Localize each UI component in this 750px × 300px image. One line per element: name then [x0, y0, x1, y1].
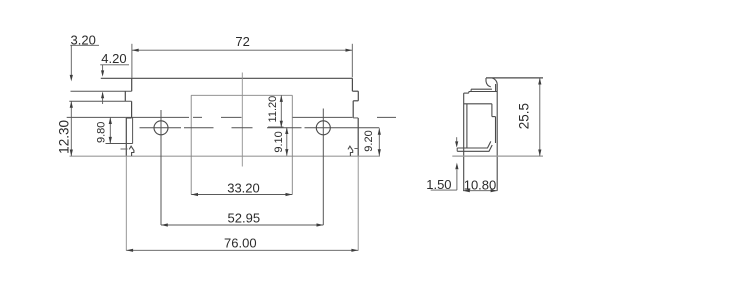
arrowheads front — [70, 49, 381, 252]
inner horizontal edge line y=117.35 segment A (with 9.80 extension) — [67, 116, 189, 118]
left shelf line (9.80 bottom extension) — [106, 143, 133, 145]
dim 3.20 leader — [70, 45, 72, 76]
side lip bottom — [469, 91, 497, 93]
dim 4.20 lower leader — [102, 93, 104, 105]
dim 1.50 underline — [431, 189, 457, 191]
rail left edge — [131, 78, 133, 91]
svg-text:3.20: 3.20 — [71, 32, 96, 47]
hole centerline horizontal middle — [232, 127, 253, 129]
right clip tick — [354, 148, 358, 150]
arrow 52.95 right — [317, 223, 324, 226]
arrow 12.30 up — [70, 101, 73, 108]
right hole vertical centerline (extends to 52.95 dim) — [322, 109, 324, 226]
right step out — [353, 117, 358, 119]
right body edge upper — [352, 101, 354, 118]
rail right edge — [351, 78, 353, 91]
dim 25.5 line — [539, 78, 541, 156]
side top edge (with 25.5 extension) — [486, 77, 543, 79]
left hole — [154, 121, 168, 135]
76.00 right extension — [357, 156, 359, 250]
arrow 52.95 left — [161, 223, 168, 226]
dim 72 line — [132, 49, 352, 51]
side left wall inner — [466, 104, 468, 148]
side beak outer curve — [492, 78, 497, 86]
svg-text:11.20: 11.20 — [267, 96, 279, 123]
arrow 9.20 down — [378, 149, 381, 156]
dim 11.20 bottom extension tick — [268, 126, 284, 128]
arrow 9.80 down — [109, 137, 112, 144]
hole centerline horizontal right b — [305, 127, 380, 129]
arrow 9.10 up — [285, 127, 288, 134]
side spine outer (extends to 10.80 dim) — [496, 86, 498, 191]
dim 76.00 line — [126, 249, 358, 251]
arrow 11.20 up — [280, 95, 283, 102]
svg-text:33.20: 33.20 — [227, 181, 260, 196]
side spine inner lower — [495, 117, 497, 143]
central window top edge — [191, 94, 292, 96]
dim 72 extension left — [131, 44, 133, 78]
left tab top edge (with extension to dim stack) — [71, 90, 132, 92]
inner horizontal edge line segment C — [293, 116, 353, 118]
arrow 25.5 down — [538, 150, 541, 157]
side spine inner step — [492, 116, 496, 118]
side clip lower line with flick — [457, 145, 492, 151]
side clip upper line with flick — [457, 141, 491, 148]
arrow 9.10 down — [285, 149, 288, 156]
arrow 3.20 down — [70, 75, 73, 82]
svg-text:1.50: 1.50 — [426, 177, 451, 192]
dim 4.20 upper leader — [102, 65, 104, 71]
dim 9.80 line — [109, 117, 111, 143]
side left shoulder — [464, 92, 469, 94]
arrow 72 right — [346, 49, 353, 52]
arrow 9.20 up — [378, 128, 381, 135]
arrow 72 left — [132, 49, 139, 52]
body bottom edge (gray) — [70, 155, 381, 157]
svg-text:76.00: 76.00 — [224, 236, 257, 251]
rail top edge (with 4.20 extension overlap) — [101, 77, 353, 79]
part vertical centerline — [241, 73, 243, 167]
76.00 left extension — [125, 156, 127, 250]
dim 33.20 line — [191, 194, 292, 196]
side clip left end — [456, 148, 458, 151]
dim 10.80 line — [463, 190, 497, 192]
side arm bottom — [464, 103, 492, 105]
side left wall outer (extends to 10.80 dim) — [463, 93, 465, 191]
svg-text:9.80: 9.80 — [95, 122, 107, 143]
right tab top edge — [352, 90, 358, 92]
right tab bottom edge — [353, 100, 358, 102]
dim 52.95 line — [161, 224, 323, 226]
dim 9.20 line — [378, 128, 380, 156]
dim 72 extension right — [351, 44, 353, 78]
svg-text:25.5: 25.5 — [517, 103, 532, 129]
right clip hook — [348, 146, 353, 156]
dim 4.20 underline — [100, 64, 129, 66]
side spine inner mid — [491, 104, 493, 117]
svg-text:9.20: 9.20 — [363, 130, 375, 151]
svg-text:4.20: 4.20 — [101, 51, 126, 66]
left tab bottom edge (with extension left) — [69, 100, 131, 102]
arrow 10.80 right — [491, 189, 498, 192]
left tab left edge — [124, 91, 126, 101]
left clip hook — [129, 146, 134, 156]
arrow 4.20 up — [101, 92, 104, 98]
arrow 11.20 down — [280, 121, 283, 128]
hole centerline horizontal left b — [184, 127, 214, 129]
arrow 33.20 right — [286, 193, 293, 196]
svg-text:72: 72 — [235, 34, 249, 49]
side bottom edge (gray, with 25.5 extension) — [452, 155, 543, 157]
left body edge lower — [125, 118, 127, 156]
central window left edge (extends to 33.20 dim) — [190, 95, 192, 194]
side lip left tick — [470, 89, 472, 91]
left body edge upper — [131, 101, 133, 118]
right body edge lower — [357, 118, 359, 156]
left inner wall vertical — [132, 117, 134, 143]
hole centerline horizontal right (extends to 9.20 dim) — [267, 127, 302, 129]
dim 11.20 line — [280, 95, 282, 127]
arrow 10.80 left — [463, 189, 470, 192]
arrow 12.30 down — [70, 150, 73, 157]
arrow 9.80 up — [109, 117, 112, 124]
svg-text:10.80: 10.80 — [464, 177, 497, 192]
dim 1.50 lower leader — [456, 170, 458, 191]
central window right edge (extends to 33.20 dim) — [291, 95, 293, 194]
svg-text:9.10: 9.10 — [273, 131, 285, 152]
inner horizontal edge dash right of part — [377, 116, 396, 118]
arrow 1.50 up — [455, 163, 458, 170]
side spine inner upper stub — [495, 84, 497, 92]
arrow 76.00 right — [351, 249, 358, 252]
side beak inner curve — [486, 78, 491, 87]
arrowheads side — [455, 78, 541, 192]
dim 1.50 upper leader — [456, 137, 458, 143]
arrow 33.20 left — [191, 193, 198, 196]
dim 3.20 underline — [70, 44, 99, 46]
side lip top — [471, 88, 492, 90]
right hole — [316, 121, 330, 135]
arrow 25.5 up — [538, 78, 541, 85]
right tab right edge — [357, 91, 359, 101]
inner horizontal edge line segment A2 — [193, 116, 202, 118]
left hole vertical centerline (extends to 52.95 dim) — [160, 110, 162, 225]
dim 9.10 line — [286, 127, 288, 155]
svg-text:12.30: 12.30 — [56, 120, 71, 154]
inner horizontal edge line segment B — [221, 116, 242, 118]
arrow 1.50 down — [455, 141, 458, 147]
left step out — [126, 117, 131, 119]
dim 12.30 line — [70, 101, 72, 156]
arrow 4.20 down — [101, 70, 104, 76]
svg-text:52.95: 52.95 — [228, 211, 261, 226]
hole centerline horizontal left — [140, 127, 182, 129]
side lip-shoulder tick — [468, 92, 470, 94]
arrow 76.00 left — [126, 249, 133, 252]
left clip tick — [121, 148, 128, 150]
